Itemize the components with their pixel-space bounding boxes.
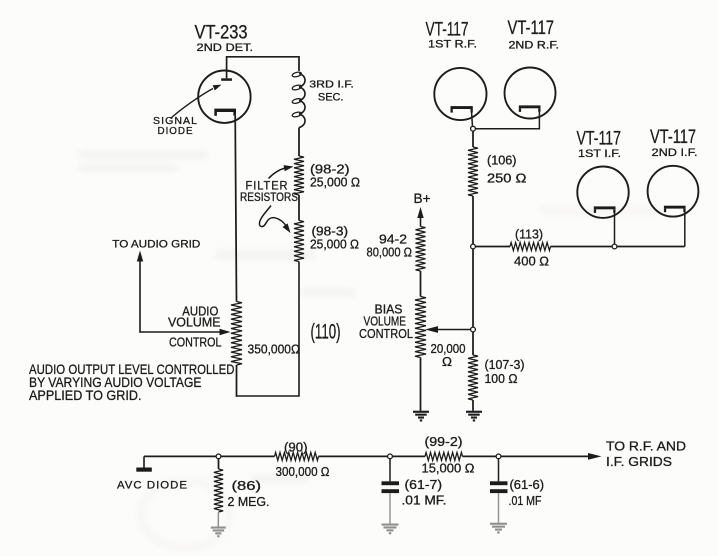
label BIAS VOLUME CONTROL <box>359 303 413 342</box>
label AUDIO VOLUME CONTROL <box>168 304 222 349</box>
resistor R107-3 100 ohm <box>468 355 478 400</box>
svg-text:.01 MF: .01 MF <box>509 494 542 508</box>
note AUDIO OUTPUT LEVEL text <box>29 361 235 403</box>
tube V2 label VT-117 1ST R.F. <box>426 20 478 51</box>
label SIGNAL DIODE <box>153 116 198 137</box>
svg-text:(99-2): (99-2) <box>425 435 463 449</box>
label TO R.F. AND I.F. GRIDS <box>606 440 686 470</box>
tube V3 cathode lead wire <box>475 112 539 129</box>
svg-text:VT-117: VT-117 <box>426 20 469 41</box>
svg-text:2 MEG.: 2 MEG. <box>228 495 270 509</box>
svg-text:2ND R.F.: 2ND R.F. <box>509 39 560 51</box>
label TO AUDIO GRID <box>112 238 200 250</box>
wire R90 to R99-2 <box>319 455 426 457</box>
AVC diode symbol <box>136 456 152 471</box>
svg-text:(113): (113) <box>515 228 543 242</box>
svg-text:FILTER: FILTER <box>246 181 289 193</box>
svg-text:B+: B+ <box>414 190 431 206</box>
wire node to R86 <box>218 458 220 469</box>
label AVC DIODE <box>117 479 188 491</box>
resistor R86 2 MEG <box>214 469 223 512</box>
svg-text:15,000 Ω: 15,000 Ω <box>422 462 475 476</box>
label (61-7) .01 MF. <box>402 478 447 507</box>
svg-text:.01 MF.: .01 MF. <box>402 494 447 508</box>
svg-text:(107-3): (107-3) <box>485 358 525 372</box>
label FILTER RESISTORS <box>240 181 298 205</box>
svg-text:(90): (90) <box>284 441 308 455</box>
ground R107-3 <box>466 411 482 422</box>
svg-text:SEC.: SEC. <box>318 91 344 103</box>
svg-text:(106): (106) <box>487 154 517 168</box>
wire R86 to ground <box>217 512 219 527</box>
svg-text:3RD I.F.: 3RD I.F. <box>309 79 354 91</box>
resistor R98-2 <box>294 156 304 195</box>
svg-text:2ND I.F.: 2ND I.F. <box>652 147 698 159</box>
node RF cathodes junction <box>471 126 476 131</box>
svg-text:VOLUME: VOLUME <box>168 316 221 330</box>
label (107-3) 100 ohm <box>485 358 525 386</box>
tube V5 (VT-117 2nd IF) envelope <box>648 166 699 217</box>
label (98-2) 25,000 ohm <box>310 163 360 190</box>
wire bias pot to ground <box>420 358 422 411</box>
svg-text:80,000 Ω: 80,000 Ω <box>367 245 413 259</box>
wire node to R106 <box>472 131 474 147</box>
svg-text:CONTROL: CONTROL <box>169 335 222 349</box>
wire AVC bus left <box>144 455 275 457</box>
tube V1 plate electrode <box>221 56 232 81</box>
wire node113 to bias wiper node <box>472 249 474 327</box>
svg-text:(86): (86) <box>232 479 262 493</box>
label 94-2 80,000 ohm <box>367 233 413 260</box>
svg-text:1ST R.F.: 1ST R.F. <box>428 39 477 51</box>
label 350,000 ohm <box>248 341 301 356</box>
svg-text:RESISTORS: RESISTORS <box>240 192 298 204</box>
tube V2 (VT-117 1st RF) envelope <box>434 68 486 120</box>
ground C61-7 <box>382 524 399 535</box>
svg-text:(98-3): (98-3) <box>312 225 349 239</box>
wire audio pot bottom <box>236 365 238 397</box>
filter resistors callout arrow lower <box>259 206 290 234</box>
node C61-7 junction <box>388 454 393 459</box>
label (113) 400 ohm <box>514 228 549 269</box>
svg-text:TO AUDIO GRID: TO AUDIO GRID <box>112 238 200 250</box>
ground R86 <box>211 527 226 538</box>
wire coil to R98-2 <box>298 128 300 157</box>
tube V3 (VT-117 2nd RF) envelope <box>505 68 556 119</box>
svg-text:100 Ω: 100 Ω <box>485 372 518 386</box>
capacitor C61-6 .01 MF <box>490 458 508 523</box>
wire node to R113 <box>476 246 511 248</box>
resistor R90 300,000 ohm <box>275 452 319 460</box>
node IF cathode junction <box>612 244 617 249</box>
label (99-2) 15,000 ohm <box>422 435 475 476</box>
label (98-3) 25,000 ohm <box>310 225 359 252</box>
node bias wiper junction <box>471 327 476 332</box>
label 3RD I.F. SEC. <box>309 79 354 104</box>
node 113 branch <box>471 244 476 249</box>
resistor R99-2 15,000 ohm <box>425 452 463 460</box>
wire R94-2 to bias pot <box>420 271 422 297</box>
label (110) <box>311 321 341 344</box>
label (90) 300,000 ohm <box>276 441 330 480</box>
B+ arrow <box>417 207 423 227</box>
wire right side of 110 loop <box>237 262 300 397</box>
svg-text:2ND DET.: 2ND DET. <box>197 42 254 54</box>
tube V4 label VT-117 1ST I.F. <box>577 129 622 160</box>
svg-text:25,000 Ω: 25,000 Ω <box>310 176 360 190</box>
tube V4 (VT-117 1st IF) envelope <box>577 167 628 218</box>
tube V2 cathode lead <box>472 113 473 129</box>
wire bias node to R107-3 <box>472 332 474 355</box>
tube V5 label VT-117 2ND I.F. <box>650 127 698 159</box>
capacitor C61-7 .01 MF <box>382 458 400 524</box>
resistor R94-2 80,000 ohm <box>416 227 426 272</box>
tube V4 cathode <box>594 206 616 213</box>
svg-text:(98-2): (98-2) <box>310 163 350 177</box>
wiper arrow audio pot <box>140 329 231 335</box>
wire plate to coil (top) <box>227 57 299 71</box>
label (86) 2 MEG. <box>228 479 270 509</box>
svg-text:CONTROL: CONTROL <box>359 327 413 341</box>
tube V1 cathode electrode <box>214 109 236 116</box>
svg-text:(61-6): (61-6) <box>510 478 545 492</box>
resistor R98-3 <box>294 221 304 262</box>
tube V3 cathode <box>519 105 541 112</box>
wire to audio grid with arrow <box>137 251 143 333</box>
svg-text:VT-233: VT-233 <box>195 23 248 44</box>
svg-text:25,000 Ω: 25,000 Ω <box>310 238 359 252</box>
arrow to RF IF grids <box>588 453 602 460</box>
label 20,000 ohm <box>431 342 466 369</box>
svg-text:VT-117: VT-117 <box>508 18 555 39</box>
wiper arrow bias pot <box>425 326 473 333</box>
label (61-6) .01 MF <box>509 478 545 508</box>
label (106) 250 ohm <box>487 154 527 186</box>
ground bias pot <box>413 411 429 422</box>
svg-text:300,000 Ω: 300,000 Ω <box>276 465 330 479</box>
svg-text:VT-117: VT-117 <box>650 127 696 148</box>
tube V5 cathode lead <box>684 212 686 246</box>
tube V1 (VT-233) envelope <box>198 71 250 123</box>
svg-text:400 Ω: 400 Ω <box>514 254 549 268</box>
svg-text:250 Ω: 250 Ω <box>487 171 527 185</box>
potentiometer audio volume control 350,000 ohm <box>231 302 242 366</box>
inductor L1 3RD I.F. SEC. <box>292 71 305 127</box>
svg-text:VT-117: VT-117 <box>577 129 622 150</box>
resistor R106 250 ohm <box>468 147 478 196</box>
wire bus to arrow <box>463 455 593 457</box>
tube V5 cathode <box>664 206 686 213</box>
svg-text:TO R.F. AND: TO R.F. AND <box>606 440 686 454</box>
svg-text:I.F. GRIDS: I.F. GRIDS <box>606 455 672 469</box>
svg-text:(110): (110) <box>311 321 341 344</box>
wire R98-2 to R98-3 <box>298 195 300 221</box>
svg-text:DIODE: DIODE <box>158 126 194 137</box>
signal diode callout arrow <box>171 85 222 119</box>
tube V1 label VT-233 <box>195 23 254 55</box>
wire R106 to node 113 <box>472 196 474 244</box>
filter resistors callout arrow upper <box>269 165 294 178</box>
node C61-6 junction <box>496 454 501 459</box>
label B+ <box>414 190 431 206</box>
tube V2 cathode <box>451 106 473 113</box>
tube V3 label VT-117 2ND R.F. <box>508 18 560 51</box>
wire cathode down to audio pot <box>235 116 236 302</box>
svg-text:APPLIED TO GRID.: APPLIED TO GRID. <box>29 387 142 403</box>
resistor R113 400 ohm <box>510 243 551 251</box>
ground C61-6 <box>490 523 507 534</box>
svg-text:Ω: Ω <box>442 355 452 369</box>
tube V4 cathode lead <box>614 213 616 244</box>
potentiometer bias volume control 20,000 ohm <box>415 297 426 358</box>
node AVC R86 junction <box>216 454 221 459</box>
wire R107-3 to ground <box>472 400 474 411</box>
svg-text:AVC DIODE: AVC DIODE <box>117 479 188 491</box>
wire R113 to IF tubes <box>551 246 685 248</box>
svg-text:(61-7): (61-7) <box>405 478 443 492</box>
svg-text:350,000Ω: 350,000Ω <box>248 341 301 356</box>
svg-text:1ST I.F.: 1ST I.F. <box>578 148 621 160</box>
